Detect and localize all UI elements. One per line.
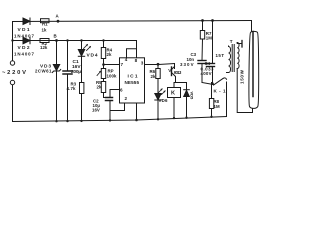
- svg-text:400V: 400V: [201, 71, 212, 76]
- potentiometer RP: [101, 69, 105, 79]
- svg-text:4.7k: 4.7k: [67, 86, 77, 91]
- svg-text:VD6: VD6: [159, 98, 169, 103]
- resistor R5: [101, 82, 105, 93]
- node K bottom: [173, 117, 175, 119]
- lamp 150W tube: [249, 31, 259, 108]
- wire B rail corner to bridge: [136, 41, 138, 49]
- wire secondary top to lamp electrode: [237, 43, 242, 44]
- svg-text:9013: 9013: [174, 70, 182, 75]
- wire lower terminal to bottom rail: [12, 85, 14, 122]
- svg-text:8: 8: [135, 58, 138, 63]
- resistor R4: [101, 48, 105, 59]
- svg-text:2k: 2k: [97, 85, 102, 90]
- resistor R6: [157, 64, 159, 68]
- wire lamp bottom: [252, 109, 254, 113]
- wire B rail: [13, 40, 137, 42]
- svg-text:7: 7: [121, 62, 124, 67]
- capacitor C2: [106, 97, 113, 99]
- wire R6 to VD6: [157, 79, 159, 94]
- diode VD1: [23, 18, 30, 25]
- svg-text:2k: 2k: [107, 52, 112, 57]
- wire top rail corner to lamp: [251, 21, 253, 32]
- wire VD6 to rail: [157, 100, 159, 119]
- node R8 bottom: [210, 116, 212, 118]
- svg-text:330V: 330V: [180, 62, 194, 67]
- wire pin6: [110, 89, 120, 91]
- node pin1 rail: [135, 119, 138, 122]
- wire K to rail: [173, 98, 175, 119]
- svg-text:2CW61: 2CW61: [35, 69, 52, 74]
- node C1 top: [66, 39, 68, 41]
- svg-text:K: K: [171, 91, 175, 97]
- resistor R3: [80, 83, 84, 94]
- LED VD4 arrows: [84, 44, 91, 50]
- node C1 bottom: [66, 120, 68, 122]
- wire C2 bottom to rail: [109, 101, 111, 121]
- lamp internal electrode: [252, 32, 254, 97]
- svg-text:1N4007: 1N4007: [14, 52, 35, 57]
- wire top rail A: [13, 21, 252, 22]
- wire left input vertical: [12, 22, 14, 61]
- wire pin7: [104, 64, 120, 66]
- svg-text:VD5: VD5: [190, 92, 195, 101]
- svg-text:4: 4: [125, 57, 128, 62]
- svg-text:T: T: [230, 39, 233, 44]
- svg-text:3: 3: [141, 60, 144, 65]
- wire R4 to node7: [103, 59, 105, 69]
- capacitor C4 column: [212, 21, 214, 64]
- zener VD3 column wire: [56, 41, 58, 122]
- svg-text:100k: 100k: [107, 74, 118, 79]
- wire pin1: [136, 103, 138, 120]
- svg-text:1M: 1M: [206, 35, 212, 40]
- LED VD4: [78, 50, 84, 57]
- wire R5 bottom to C2: [104, 93, 111, 98]
- terminal upper: [10, 61, 14, 65]
- LED VD6: [155, 94, 161, 101]
- node pin7: [102, 63, 105, 66]
- svg-text:NE555: NE555: [125, 80, 140, 85]
- transistor V 9013: [174, 64, 176, 69]
- svg-text:16V: 16V: [92, 108, 100, 113]
- diode VD2: [23, 37, 30, 44]
- diode VD5: [186, 83, 188, 90]
- svg-text:150W: 150W: [240, 69, 245, 84]
- wire C4 to node P: [212, 67, 214, 84]
- resistor R2: [40, 39, 49, 43]
- svg-text:VD2: VD2: [18, 45, 30, 51]
- transformer T primary winding: [227, 46, 231, 73]
- svg-text:B: B: [54, 34, 57, 39]
- transformer T core: [231, 45, 233, 72]
- capacitor C3: [198, 60, 206, 62]
- potentiometer RP arrow: [97, 71, 101, 76]
- switch contact K-1: [214, 79, 224, 86]
- svg-text:200µ: 200µ: [71, 69, 81, 75]
- wire RP to R5: [103, 79, 105, 82]
- wire pin3 output: [145, 64, 175, 65]
- relay coil K: [173, 83, 175, 88]
- node C2 bottom: [109, 119, 111, 121]
- wire C3 to node P: [201, 64, 203, 83]
- wire bottom rail: [13, 117, 227, 122]
- svg-text:1M: 1M: [214, 104, 220, 109]
- svg-text:12k: 12k: [40, 45, 48, 50]
- wire pin2 loop: [110, 103, 125, 111]
- node R6: [157, 63, 160, 66]
- wire R7 to C3: [201, 39, 204, 61]
- wire pin6 vertical: [109, 90, 111, 98]
- wire R8 to rail: [211, 109, 213, 118]
- svg-text:VD4: VD4: [87, 53, 98, 59]
- LED VD6 arrows: [159, 89, 166, 95]
- capacitor C1 column wire: [67, 41, 69, 71]
- node R7 top: [201, 19, 204, 22]
- IC U1 IC1 NE555 box: [120, 58, 145, 103]
- node B: [55, 39, 58, 42]
- node R4 top: [102, 39, 104, 41]
- resistor R8: [211, 83, 213, 99]
- node input B rail: [11, 39, 13, 41]
- node VD4 top: [80, 39, 82, 41]
- svg-text:R1: R1: [42, 22, 48, 27]
- node R3 bottom: [80, 120, 82, 122]
- wire emitter node: [174, 82, 187, 84]
- svg-text:6: 6: [120, 88, 123, 93]
- resistor R7: [202, 21, 204, 31]
- transformer T secondary winding: [237, 43, 239, 69]
- node C4 top: [211, 19, 214, 22]
- svg-text:15T: 15T: [216, 53, 225, 58]
- node VD3 bottom: [55, 120, 57, 122]
- capacitor C4: [207, 63, 215, 65]
- capacitor C1: [63, 70, 72, 72]
- svg-text:2k: 2k: [151, 74, 156, 79]
- svg-text:VD1: VD1: [18, 27, 30, 33]
- terminal lower: [10, 80, 14, 84]
- svg-text:1k: 1k: [42, 28, 47, 33]
- svg-text:2: 2: [125, 96, 128, 101]
- wire VD5 to rail: [186, 97, 188, 119]
- LED VD4 column wire: [81, 41, 83, 122]
- node A: [57, 20, 60, 23]
- svg-text:1N4007: 1N4007: [14, 34, 35, 39]
- wire secondary bottom down: [237, 69, 252, 113]
- wire node P: [202, 83, 214, 85]
- resistor R1: [41, 19, 50, 23]
- svg-text:C4: C4: [205, 61, 211, 66]
- resistor R4 chain column: [103, 41, 105, 48]
- wire pin4-8 bridge: [127, 49, 137, 58]
- node VD5 bottom: [185, 117, 187, 119]
- wire contact to primary bottom: [226, 82, 228, 117]
- svg-text:K - 1: K - 1: [214, 89, 226, 94]
- zener VD3: [52, 65, 60, 73]
- lamp side electrode bar: [241, 41, 243, 48]
